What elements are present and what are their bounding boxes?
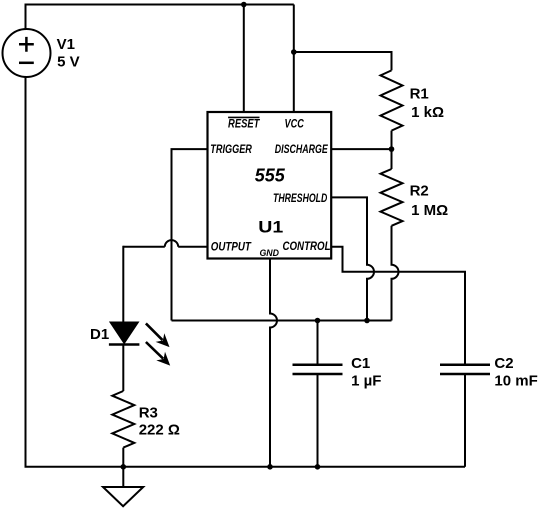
wire LED cathode to R3 xyxy=(122,345,124,392)
label R1 value xyxy=(410,86,444,122)
wire V1 top lead xyxy=(25,4,27,30)
svg-text:R2: R2 xyxy=(410,183,429,200)
svg-text:5 V: 5 V xyxy=(57,53,80,70)
resistor R3 xyxy=(112,391,134,448)
capacitor C1 xyxy=(293,365,343,374)
op-amp U1 555 timer box xyxy=(208,112,332,259)
svg-text:U1: U1 xyxy=(258,217,283,236)
wire C2 bottom lead xyxy=(464,374,466,467)
svg-text:GND: GND xyxy=(259,248,279,259)
junction node GND stub / ground rail xyxy=(267,464,273,470)
resistor R2 xyxy=(381,169,403,226)
LED D1 emission arrow 1 xyxy=(146,323,170,347)
junction node R3 / ground rail xyxy=(121,464,127,470)
wire trigger/threshold horizontal net xyxy=(172,320,392,322)
wire VCC stub xyxy=(293,5,295,113)
svg-text:DISCHARGE: DISCHARGE xyxy=(275,144,328,156)
svg-text:555: 555 xyxy=(255,165,286,185)
junction node top rail / RESET xyxy=(241,2,247,8)
wire OUTPUT down to LED xyxy=(122,246,124,322)
label R3 value xyxy=(139,405,180,439)
ground symbol xyxy=(103,467,143,506)
wire C1 bottom lead xyxy=(317,374,319,467)
LED D1 xyxy=(109,322,139,344)
wire C1 top lead xyxy=(317,321,319,365)
wire V1 bottom lead down left side xyxy=(25,77,27,467)
junction node C1 top / trigger net xyxy=(315,318,321,324)
label R2 value xyxy=(410,183,449,219)
capacitor C2 xyxy=(440,365,490,374)
svg-text:VCC: VCC xyxy=(285,119,305,131)
svg-text:C1: C1 xyxy=(351,355,370,372)
wire R2 bottom lead with hop over control wire xyxy=(392,226,399,321)
voltage source V1 xyxy=(3,29,51,77)
svg-text:1 MΩ: 1 MΩ xyxy=(411,202,448,219)
wire THRESHOLD right and down with hop over control wire xyxy=(331,197,374,320)
wire R1 bottom to R2 top xyxy=(391,131,393,169)
svg-text:1 µF: 1 µF xyxy=(351,373,381,390)
junction node THRESHOLD / trigger net xyxy=(364,318,370,324)
svg-text:OUTPUT: OUTPUT xyxy=(211,242,252,254)
wire RESET stub xyxy=(243,5,245,113)
wire TRIGGER left and down xyxy=(172,149,208,320)
wire bottom ground rail xyxy=(25,466,466,468)
label C1 value xyxy=(351,355,381,390)
svg-text:1 kΩ: 1 kΩ xyxy=(411,104,444,121)
junction node C1 bottom / ground rail xyxy=(315,464,321,470)
svg-text:R3: R3 xyxy=(139,405,158,422)
svg-text:10 mF: 10 mF xyxy=(494,373,537,390)
label C2 value xyxy=(494,355,537,390)
svg-text:RESET: RESET xyxy=(228,118,260,130)
wire DISCHARGE to R1/R2 junction xyxy=(331,148,391,150)
svg-text:222 Ω: 222 Ω xyxy=(139,421,180,438)
svg-text:V1: V1 xyxy=(57,36,75,53)
wire top rail from V1 to VCC column xyxy=(26,4,294,6)
svg-text:CONTROL: CONTROL xyxy=(283,241,331,253)
junction node R1 / R2 / DISCHARGE xyxy=(389,146,395,152)
svg-text:C2: C2 xyxy=(494,355,513,372)
svg-text:THRESHOLD: THRESHOLD xyxy=(273,193,327,205)
label V1 value xyxy=(57,36,80,70)
svg-text:D1: D1 xyxy=(90,326,109,343)
svg-text:TRIGGER: TRIGGER xyxy=(210,144,252,156)
wire VCC to R1 top branch xyxy=(294,52,392,70)
pin label RESET with overline xyxy=(228,117,260,130)
resistor R1 xyxy=(381,70,403,130)
junction node VCC / R1 branch xyxy=(291,49,297,55)
svg-text:R1: R1 xyxy=(410,86,429,103)
wire R3 bottom to ground rail xyxy=(122,448,124,467)
wire CONTROL right, down and across to C2 xyxy=(331,247,465,365)
LED D1 emission arrow 2 xyxy=(146,342,170,366)
wire OUTPUT left with hop over trigger wire xyxy=(123,240,207,247)
wire GND stub down with hop over trigger/threshold net xyxy=(270,259,277,467)
